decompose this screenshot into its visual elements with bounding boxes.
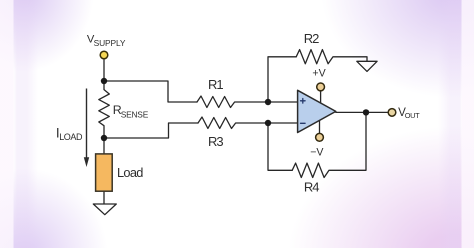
svg-text:R1: R1 <box>208 77 223 92</box>
svg-text:OUT: OUT <box>405 111 420 120</box>
svg-text:SUPPLY: SUPPLY <box>94 38 126 48</box>
svg-text:R2: R2 <box>304 31 319 46</box>
svg-text:R3: R3 <box>208 134 223 149</box>
svg-text:−V: −V <box>310 146 324 158</box>
svg-text:+V: +V <box>312 68 326 80</box>
svg-text:R4: R4 <box>304 180 319 195</box>
svg-text:SENSE: SENSE <box>121 110 149 120</box>
svg-text:LOAD: LOAD <box>59 132 83 142</box>
svg-text:Load: Load <box>117 165 143 180</box>
